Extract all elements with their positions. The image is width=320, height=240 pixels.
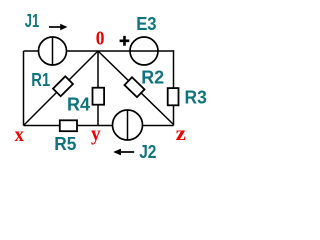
svg-text:y: y bbox=[91, 123, 101, 145]
svg-text:z: z bbox=[176, 123, 186, 145]
svg-text:R3: R3 bbox=[185, 87, 207, 107]
svg-text:R4: R4 bbox=[67, 95, 90, 115]
svg-text:R1: R1 bbox=[31, 70, 50, 90]
svg-text:J2: J2 bbox=[139, 142, 156, 162]
svg-text:J1: J1 bbox=[25, 11, 40, 31]
svg-text:0: 0 bbox=[96, 28, 105, 50]
svg-text:R5: R5 bbox=[54, 134, 76, 154]
svg-text:x: x bbox=[15, 124, 24, 146]
svg-text:R2: R2 bbox=[141, 68, 164, 88]
svg-text:E3: E3 bbox=[136, 14, 156, 34]
